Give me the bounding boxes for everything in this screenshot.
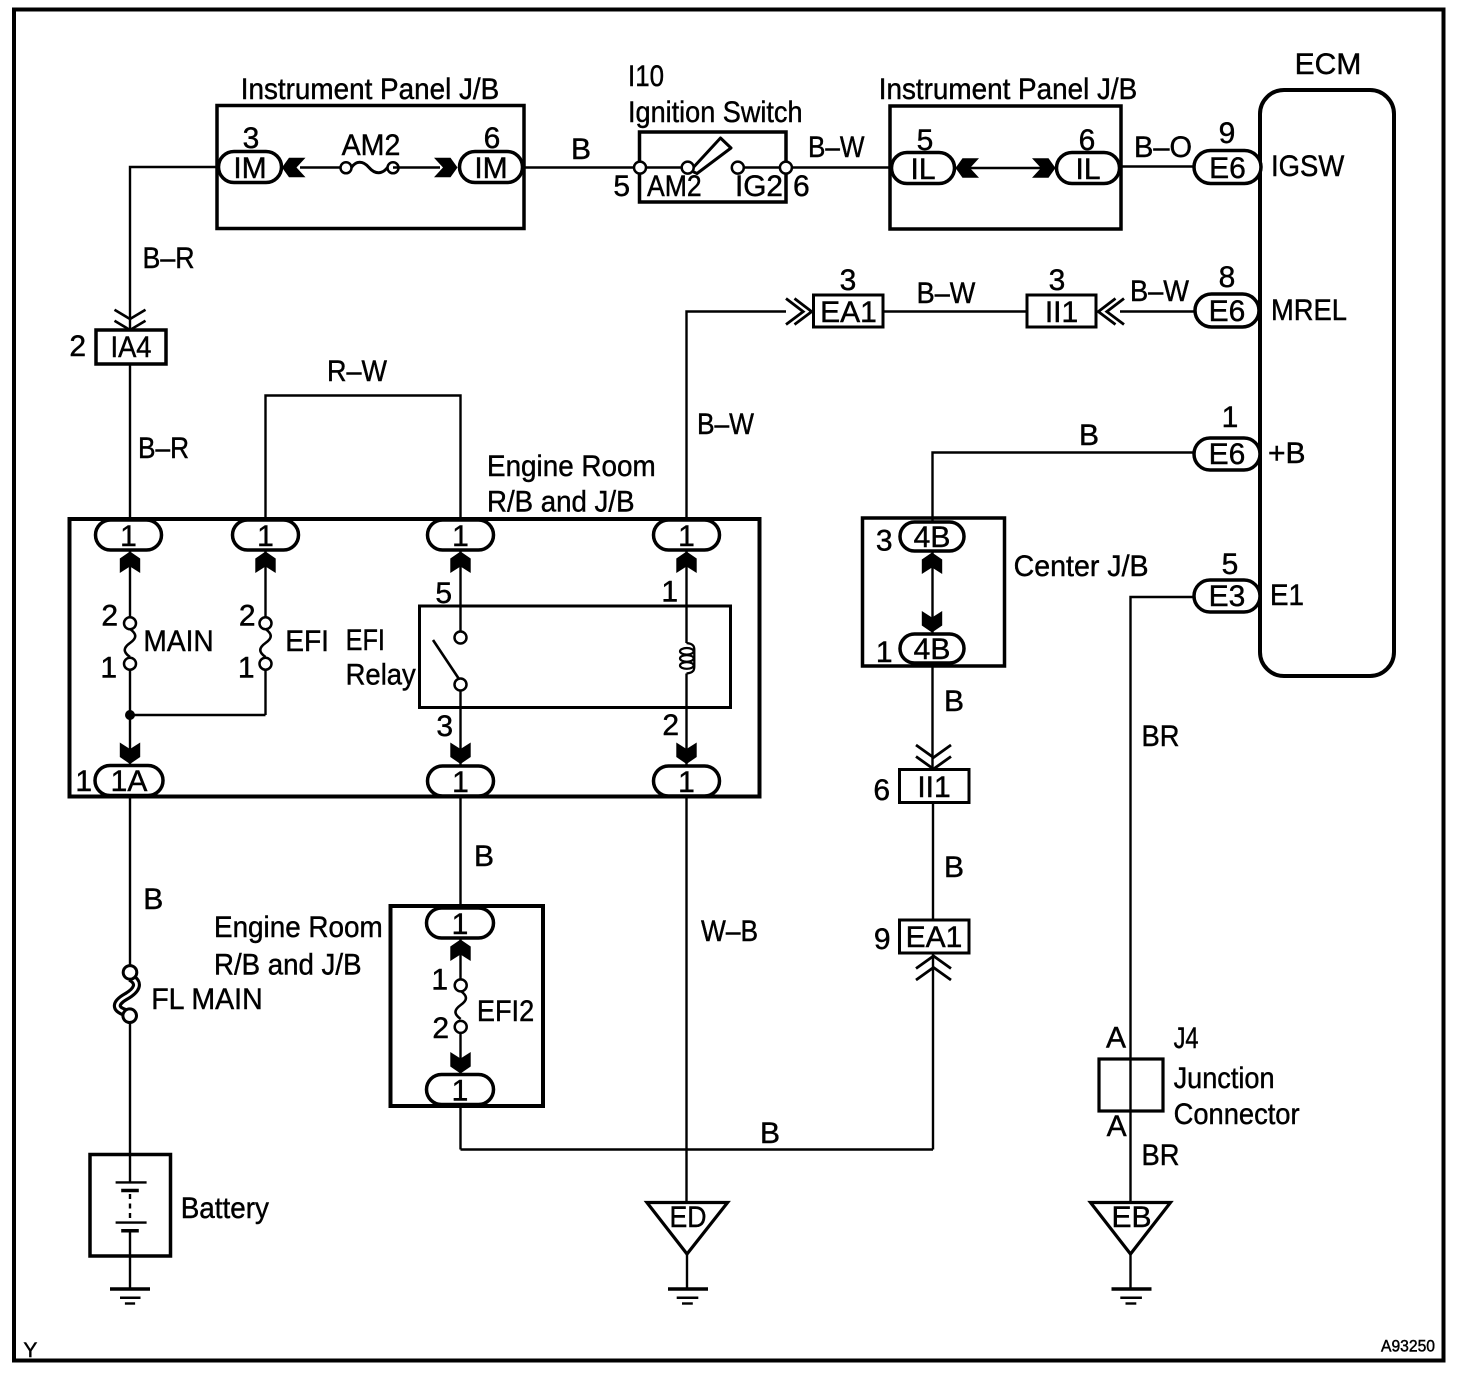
label Y: [23, 1339, 37, 1362]
svg-text:1: 1: [1222, 401, 1239, 434]
arrow up col4: [676, 552, 696, 574]
connector oval 1 (EFI2 bottom): [427, 1075, 494, 1108]
svg-text:5: 5: [435, 577, 452, 610]
connector E3 pin 5 E1: [1194, 548, 1304, 613]
svg-text:1: 1: [257, 520, 274, 553]
svg-text:B: B: [944, 685, 964, 718]
wire EA1 chevrons to engine room (B-W net): [687, 312, 787, 521]
ECM module: [1260, 48, 1394, 676]
fuse MAIN: [100, 600, 213, 685]
svg-text:ED: ED: [670, 1201, 707, 1234]
svg-text:1: 1: [120, 520, 137, 553]
svg-text:A93250: A93250: [1381, 1338, 1435, 1356]
chevron arrows at II1 right: [1098, 299, 1124, 325]
junction box left: Instrument Panel J/B: [217, 73, 524, 229]
wire 4B to 4B: [931, 551, 933, 635]
connector 4B pin 3: [876, 521, 964, 558]
label B-R upper: [143, 242, 195, 275]
arrow up col3: [450, 552, 470, 574]
svg-text:BR: BR: [1142, 720, 1180, 753]
svg-text:1: 1: [876, 636, 893, 669]
svg-text:W–B: W–B: [701, 915, 758, 948]
ground battery: [110, 1289, 150, 1304]
arrow up col2: [255, 552, 275, 574]
svg-text:EFI2: EFI2: [477, 995, 534, 1028]
wire EFI fuse column: [264, 550, 266, 715]
battery: [90, 1155, 269, 1290]
label BR upper: [1142, 720, 1180, 753]
label B bus: [760, 1117, 780, 1150]
svg-text:B: B: [143, 883, 163, 916]
svg-text:6: 6: [793, 170, 810, 203]
svg-text:3: 3: [436, 710, 453, 743]
connector IL pin 6: [1057, 124, 1120, 186]
label R-W: [327, 355, 388, 388]
arrow down col1: [120, 743, 140, 765]
wire center J/B to ECM +B (B net): [933, 453, 1197, 523]
svg-text:B–O: B–O: [1134, 131, 1192, 164]
connector oval 1 (col3 top): [428, 520, 494, 553]
svg-text:1A: 1A: [111, 765, 148, 798]
label B above EA1: [944, 851, 964, 884]
connector IM pin 6: [460, 122, 523, 185]
svg-text:Connector: Connector: [1174, 1098, 1300, 1131]
connector II1 pin 3: [1027, 264, 1096, 329]
svg-text:B–W: B–W: [697, 408, 755, 441]
wire relay coil column: [685, 550, 687, 766]
svg-text:R/B and J/B: R/B and J/B: [487, 486, 635, 519]
svg-text:I10: I10: [628, 60, 664, 93]
wire col4 to ED (W-B net): [685, 796, 687, 1203]
svg-text:B–R: B–R: [138, 432, 189, 465]
label A above J4: [1106, 1022, 1126, 1055]
svg-text:EA1: EA1: [820, 296, 877, 329]
arrow right at IL6: [1032, 158, 1056, 178]
wire EA1 down to B bus: [932, 953, 934, 1150]
label B-R lower: [138, 432, 189, 465]
svg-text:B: B: [474, 840, 494, 873]
svg-text:R/B and J/B: R/B and J/B: [214, 949, 362, 982]
svg-text:IM: IM: [233, 152, 266, 185]
connector oval 1 (col4 top): [654, 520, 720, 553]
chevron arrows at EA1 left: [786, 299, 812, 325]
wire 1A to battery (B net): [129, 796, 131, 1156]
arrow left at IM3: [282, 158, 306, 178]
svg-text:5: 5: [613, 170, 630, 203]
connector oval 1 (EFI2 top): [427, 908, 494, 941]
arrow left at IL5: [956, 158, 980, 178]
arrow up EFI2: [450, 940, 470, 962]
svg-text:E3: E3: [1209, 580, 1246, 613]
svg-text:Junction: Junction: [1174, 1062, 1275, 1095]
svg-text:1: 1: [661, 576, 678, 609]
fusible link FL MAIN: [117, 966, 262, 1023]
ground ED: [647, 1201, 728, 1304]
svg-text:2: 2: [662, 709, 679, 742]
fuse EFI2: [431, 964, 534, 1046]
junction box: Engine Room R/B and J/B (EFI2): [214, 906, 543, 1106]
label B-W mid: [917, 277, 976, 310]
wire IM3 to IA4 (B-R net): [130, 167, 219, 518]
svg-text:4B: 4B: [914, 521, 951, 554]
svg-text:2: 2: [432, 1012, 449, 1045]
chevron arrows below EA1: [916, 956, 951, 980]
label BR lower: [1142, 1139, 1180, 1172]
svg-text:FL MAIN: FL MAIN: [151, 983, 263, 1016]
connector II1 pin 6: [873, 770, 969, 808]
arrow down 4B: [922, 611, 942, 633]
svg-text:Engine Room: Engine Room: [214, 911, 383, 944]
wire IL6 to ECM IGSW (B-O net): [1119, 165, 1196, 167]
label B: [571, 133, 591, 166]
arrow down EFI2: [450, 1052, 470, 1074]
svg-text:Relay: Relay: [346, 659, 416, 692]
label B above EFI2: [474, 840, 494, 873]
svg-text:B–W: B–W: [808, 131, 865, 164]
connector oval 1 (col2 top): [233, 520, 299, 553]
svg-text:IL: IL: [910, 153, 935, 186]
relay coil: [680, 643, 694, 674]
svg-text:6: 6: [873, 774, 890, 807]
relay switch contacts: [433, 632, 467, 691]
svg-text:Ignition Switch: Ignition Switch: [628, 96, 803, 129]
svg-text:II1: II1: [1045, 296, 1078, 329]
svg-text:IG2: IG2: [735, 170, 783, 203]
svg-text:EFI: EFI: [285, 625, 329, 658]
svg-text:B: B: [1079, 419, 1099, 452]
connector 4B pin 1: [876, 633, 964, 669]
svg-text:1: 1: [238, 652, 255, 685]
wire ECM E1 to EB ground (BR net): [1131, 597, 1197, 1203]
svg-text:BR: BR: [1142, 1139, 1180, 1172]
connector oval 1A (col1 bottom): [75, 765, 163, 798]
svg-text:IA4: IA4: [111, 331, 152, 364]
svg-text:AM2: AM2: [647, 170, 702, 203]
svg-text:E6: E6: [1209, 295, 1246, 328]
connector oval 1 (col3 bottom): [428, 766, 494, 799]
wire IM3 arrow to fuse AM2: [300, 166, 346, 168]
switch I10 Ignition Switch: [613, 60, 809, 203]
wire relay switch column: [459, 550, 461, 766]
chevron arrows above IA4: [115, 310, 146, 330]
relay EFI Relay: [346, 606, 731, 708]
label B-W right: [1130, 275, 1190, 308]
connector E6 pin 9 IGSW: [1194, 117, 1345, 185]
svg-text:IGSW: IGSW: [1271, 150, 1345, 183]
junction dot: [125, 710, 135, 720]
label A below J4: [1107, 1110, 1127, 1143]
arrow up col1: [120, 552, 140, 574]
arrow up 4B: [922, 553, 942, 575]
svg-text:Instrument Panel J/B: Instrument Panel J/B: [241, 73, 500, 106]
wire fuse AM2 to IM6 arrow: [393, 166, 440, 168]
svg-text:+B: +B: [1268, 437, 1306, 470]
svg-text:EA1: EA1: [906, 921, 963, 954]
label B below center J/B: [944, 685, 964, 718]
wire IM6 to ignition switch (B net): [522, 166, 636, 168]
label W-B: [701, 915, 758, 948]
wire R-W net (EFI fuse to relay coil pin 5): [266, 396, 461, 521]
svg-text:3: 3: [840, 264, 857, 297]
connector IA4 pin 2: [69, 330, 166, 364]
svg-text:AM2: AM2: [342, 129, 401, 162]
svg-text:3: 3: [876, 525, 893, 558]
svg-text:4B: 4B: [914, 633, 951, 666]
label B-O: [1134, 131, 1192, 164]
svg-text:9: 9: [874, 923, 891, 956]
wire MREL chevrons to ECM (B-W net): [1120, 310, 1196, 312]
svg-text:B: B: [760, 1117, 780, 1150]
svg-text:5: 5: [1222, 548, 1239, 581]
svg-text:J4: J4: [1174, 1022, 1199, 1055]
connector oval 1 (col1 top): [96, 520, 162, 553]
svg-text:9: 9: [1219, 117, 1236, 150]
svg-text:1: 1: [452, 520, 469, 553]
svg-text:E1: E1: [1270, 579, 1304, 612]
fuse EFI: [238, 600, 329, 685]
svg-text:B–W: B–W: [917, 277, 976, 310]
label B-W: [808, 131, 865, 164]
svg-text:1: 1: [431, 964, 448, 997]
svg-text:2: 2: [239, 600, 256, 633]
wire 4B1 to II1 (B net): [931, 663, 933, 770]
svg-text:MREL: MREL: [1271, 294, 1347, 327]
svg-text:EFI: EFI: [346, 624, 385, 657]
svg-text:B–W: B–W: [1130, 275, 1190, 308]
svg-text:1: 1: [452, 766, 469, 799]
label B-W column: [697, 408, 755, 441]
wire EA1 to II1 (B-W net): [883, 310, 1027, 312]
svg-text:E6: E6: [1209, 438, 1246, 471]
svg-text:Instrument Panel J/B: Instrument Panel J/B: [879, 73, 1138, 106]
svg-text:1: 1: [678, 520, 695, 553]
svg-text:B: B: [944, 851, 964, 884]
wire II1 to EA1 (B net): [932, 803, 934, 921]
relay pin labels 1 and 2: [661, 576, 679, 743]
arrow right at IM6: [434, 158, 458, 178]
junction box right: Instrument Panel J/B: [879, 73, 1138, 229]
svg-text:IM: IM: [474, 152, 507, 185]
ground EB: [1091, 1201, 1171, 1304]
svg-text:Center J/B: Center J/B: [1014, 550, 1149, 583]
junction box: Engine Room R/B and J/B (main): [70, 450, 760, 797]
svg-text:Y: Y: [23, 1339, 37, 1362]
wire IL5 to IL6: [952, 167, 1058, 169]
svg-text:A: A: [1107, 1110, 1127, 1143]
connector E6 pin 1 +B: [1194, 401, 1306, 471]
label B at +B wire: [1079, 419, 1099, 452]
svg-text:II1: II1: [917, 771, 950, 804]
wire MAIN fuse column: [129, 550, 131, 766]
wire EFI2 fuse column: [459, 938, 461, 1150]
svg-text:Battery: Battery: [181, 1192, 269, 1225]
svg-text:B–R: B–R: [143, 242, 195, 275]
arrow down col3: [450, 743, 470, 765]
connector oval 1 (col4 bottom): [654, 766, 720, 799]
svg-text:Engine Room: Engine Room: [487, 450, 656, 483]
connector IL pin 5: [892, 124, 955, 186]
svg-text:2: 2: [101, 600, 118, 633]
wire B bus EFI2 to EA1: [461, 1148, 934, 1150]
chevron arrows above II1: [916, 745, 951, 769]
label B battery column: [143, 883, 163, 916]
wire junction MAIN-EFI: [130, 714, 266, 716]
svg-text:1: 1: [100, 652, 117, 685]
connector IM pin 3: [219, 122, 282, 185]
connector E6 pin 8 MREL: [1195, 261, 1347, 328]
junction box: Center J/B: [863, 518, 1149, 666]
svg-text:R–W: R–W: [327, 355, 388, 388]
svg-text:1: 1: [75, 765, 92, 798]
svg-text:MAIN: MAIN: [143, 625, 213, 658]
svg-text:EB: EB: [1111, 1201, 1151, 1234]
wire col3 to EFI2 (B net): [459, 796, 461, 908]
svg-text:8: 8: [1219, 261, 1236, 294]
wire ignition switch to IL5 (B-W net): [790, 166, 892, 168]
connector EA1 pin 3: [814, 264, 884, 329]
svg-text:1: 1: [452, 1075, 469, 1108]
arrow down col4: [676, 743, 696, 765]
svg-text:A: A: [1106, 1022, 1126, 1055]
junction connector J4: [1099, 1022, 1300, 1131]
svg-text:IL: IL: [1075, 153, 1100, 186]
relay pin labels 5 and 3: [435, 577, 453, 743]
svg-text:2: 2: [69, 330, 86, 363]
svg-text:E6: E6: [1209, 152, 1246, 185]
svg-text:B: B: [571, 133, 591, 166]
svg-text:1: 1: [678, 766, 695, 799]
svg-text:1: 1: [452, 908, 469, 941]
connector EA1 pin 9: [874, 920, 969, 956]
fuse AM2: [341, 129, 401, 173]
label A93250: [1381, 1338, 1435, 1356]
svg-text:3: 3: [1049, 264, 1066, 297]
svg-text:ECM: ECM: [1295, 48, 1362, 81]
